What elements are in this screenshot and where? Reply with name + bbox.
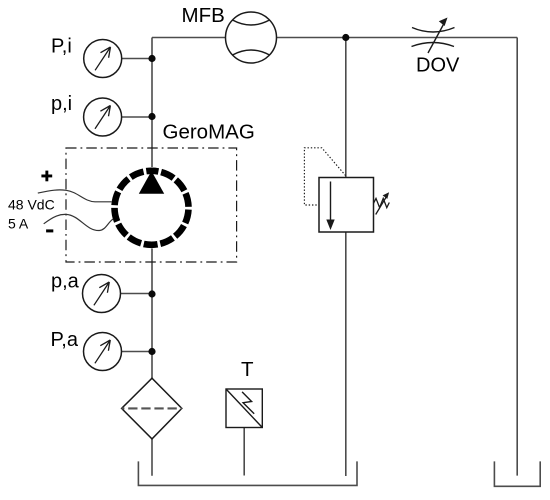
filter [122, 378, 182, 439]
relief valve flow arrow [330, 182, 332, 221]
junction dot p,a [148, 290, 155, 297]
pump outlet triangle [139, 171, 164, 194]
wire top horizontal line [152, 37, 517, 39]
svg-text:5 A: 5 A [8, 216, 29, 232]
gauge P,a [84, 333, 153, 371]
gauge p,i [84, 98, 152, 136]
gauge p,a [83, 275, 153, 313]
wire electric - lead [44, 214, 114, 230]
svg-text:GeroMAG: GeroMAG [163, 120, 255, 143]
tank right [494, 461, 540, 486]
variable orifice DOV [412, 23, 455, 54]
svg-text:P,i: P,i [51, 36, 72, 58]
wire main vertical supply line x=152 [151, 38, 153, 476]
wire T-sensor drain x=244 [243, 428, 245, 476]
svg-text:DOV: DOV [416, 55, 460, 77]
svg-text:MFB: MFB [182, 4, 225, 27]
temperature sensor T [226, 389, 262, 428]
junction dot top branch [342, 34, 349, 41]
svg-text:48 VdC: 48 VdC [8, 197, 55, 213]
flow meter MFB [226, 12, 277, 63]
svg-text:P,a: P,a [51, 329, 79, 351]
wire electric + lead [38, 190, 112, 202]
relief valve pilot line (dotted) [304, 148, 345, 205]
label + terminal [41, 171, 52, 182]
junction dot P,a [148, 348, 155, 355]
enclosure dash-dot box GeroMAG [66, 148, 237, 262]
svg-text:p,a: p,a [51, 271, 80, 293]
wire right vertical line to tank x=517.2 [516, 38, 518, 476]
junction dot p,i [148, 113, 155, 120]
svg-text:T: T [241, 358, 254, 381]
relief valve adjust arrow [376, 197, 387, 215]
gauge P,i [84, 40, 152, 78]
relief valve spring [374, 198, 390, 207]
label - terminal [46, 229, 53, 232]
junction dot P,i [148, 55, 155, 62]
wire relief-valve branch x=345.8 [345, 38, 347, 477]
svg-text:p,i: p,i [51, 93, 72, 115]
pump GeroMAG motor ring [115, 171, 189, 245]
tank main [138, 461, 357, 485]
relief valve body [319, 178, 374, 233]
